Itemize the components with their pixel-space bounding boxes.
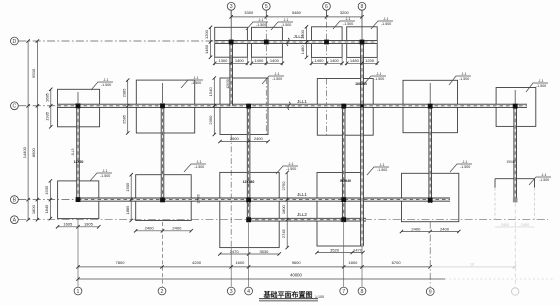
beam JLL2 A axis xyxy=(249,218,366,221)
svg-text:2585: 2585 xyxy=(121,114,126,124)
column node 9-B xyxy=(428,198,433,203)
svg-text:2600: 2600 xyxy=(230,136,240,141)
svg-text:-1.500: -1.500 xyxy=(191,81,201,85)
svg-text:2: 2 xyxy=(161,289,164,295)
svg-text:1200: 1200 xyxy=(365,58,375,63)
svg-text:-1.500: -1.500 xyxy=(374,77,384,81)
svg-text:-1.500: -1.500 xyxy=(256,23,266,27)
break mark JLL1 C xyxy=(288,102,290,110)
svg-text:40000: 40000 xyxy=(290,272,302,277)
column line pad C5 xyxy=(429,83,431,104)
label JLL2 A beam xyxy=(297,212,307,217)
svg-text:8: 8 xyxy=(361,4,364,10)
svg-text:-1.500: -1.500 xyxy=(536,84,546,88)
beam vertical axis4 xyxy=(247,106,250,223)
title text 基础平面布置图 xyxy=(259,290,324,301)
svg-text:J-1: J-1 xyxy=(539,79,544,83)
extension axis10 bottom faint xyxy=(514,203,516,287)
beam vertical axis3 xyxy=(230,42,233,106)
column line pad T1 xyxy=(230,10,232,42)
svg-text:6: 6 xyxy=(325,4,328,10)
top dimension chain 3300 5480 3200 xyxy=(230,10,364,18)
svg-text:1800: 1800 xyxy=(348,260,358,265)
svg-text:6700: 6700 xyxy=(392,260,402,265)
dimension pad T3 1400 1400 xyxy=(310,58,344,65)
extension axis2 bottom xyxy=(162,222,164,287)
svg-text:8600: 8600 xyxy=(31,147,36,157)
leader pad P9 xyxy=(276,162,298,174)
pad J-1 top row 2 xyxy=(252,27,283,57)
svg-text:1605: 1605 xyxy=(63,222,73,227)
svg-text:JLL1: JLL1 xyxy=(297,192,307,197)
svg-text:1905: 1905 xyxy=(84,222,94,227)
svg-text:J-1: J-1 xyxy=(197,160,202,164)
column node 4-A xyxy=(246,217,251,222)
svg-text:1935: 1935 xyxy=(45,111,50,121)
svg-text:W2X40: W2X40 xyxy=(340,179,351,183)
label JZL small 4 xyxy=(197,194,201,203)
svg-text:12X30: 12X30 xyxy=(74,160,84,164)
pad J-1 C row 6 xyxy=(496,88,536,127)
pad J-1 C row 2 xyxy=(136,80,194,133)
svg-text:1300: 1300 xyxy=(218,58,228,63)
label JZL small 2 xyxy=(355,82,367,86)
dimension pad P9 bottom 2470 3530 xyxy=(218,249,281,256)
svg-text:1480: 1480 xyxy=(300,45,305,55)
beam JLL2 top xyxy=(215,40,377,43)
svg-text:1400: 1400 xyxy=(315,58,325,63)
axis circle A xyxy=(11,216,19,224)
svg-text:1540: 1540 xyxy=(208,87,213,97)
leader pad T2 xyxy=(271,18,293,30)
svg-text:9: 9 xyxy=(429,289,432,295)
svg-text:-1.500: -1.500 xyxy=(539,178,549,182)
svg-text:1200: 1200 xyxy=(300,29,305,39)
svg-text:2400: 2400 xyxy=(440,226,450,231)
svg-text:JLL1: JLL1 xyxy=(297,99,307,104)
leader beam C4 junction xyxy=(364,72,386,84)
leader pad P10 xyxy=(367,163,389,175)
beam vertical axis8 xyxy=(361,42,364,246)
axis circle 3 bottom xyxy=(227,287,235,295)
svg-text:J-1: J-1 xyxy=(542,173,547,177)
svg-text:1470: 1470 xyxy=(353,247,363,252)
svg-text:14400: 14400 xyxy=(22,146,27,158)
extension axis9 bottom xyxy=(429,222,431,287)
leader pad P11 xyxy=(450,160,472,172)
column line pad C1 xyxy=(77,92,79,103)
dimension pad P11 bottom 2400 2400 xyxy=(400,226,461,233)
pad J-1 C row 4 xyxy=(317,79,373,136)
beam vertical axis10 xyxy=(514,106,517,198)
pad J-1 bottom row 4 xyxy=(317,173,363,247)
bottom chain faint right xyxy=(430,263,516,269)
svg-text:2750: 2750 xyxy=(281,181,286,191)
svg-text:JLL2: JLL2 xyxy=(297,212,307,217)
axis circle 6 top xyxy=(323,2,331,17)
leader pad P12 xyxy=(529,173,551,185)
axis circle 2 bottom xyxy=(158,287,166,295)
column node 2-C xyxy=(160,103,165,108)
axis 6 dashed line xyxy=(326,10,328,135)
svg-text:1800: 1800 xyxy=(281,204,286,214)
dimension pad C2 left 2385 2585 xyxy=(121,78,129,134)
junction node 8-C xyxy=(360,104,363,107)
svg-text:12X30: 12X30 xyxy=(226,79,230,88)
dimension pad P12 bottom faint 2400 2400 xyxy=(495,223,535,227)
pad J-1 bottom row 2 xyxy=(136,175,192,221)
axis circle C xyxy=(11,102,19,110)
dimension pad T1 1300 1400 xyxy=(213,58,249,65)
leader pad T3 xyxy=(333,17,355,29)
column node 7-A xyxy=(341,217,346,222)
extension axis8 bottom xyxy=(361,246,363,287)
svg-text:J-1: J-1 xyxy=(380,163,385,167)
column node 6-D xyxy=(324,40,329,45)
dimension pad T3 left 1200 1480 xyxy=(300,25,308,59)
dimension pad P9 right 2750 1800 2745 xyxy=(281,171,289,250)
leader pad C3 xyxy=(262,72,284,84)
axis circle 7 bottom xyxy=(340,287,348,295)
left outer dimension 14400 xyxy=(22,39,30,221)
break mark JLL2 top xyxy=(287,38,289,46)
axis circle 10 bottom faint xyxy=(512,288,519,295)
pad J-1 bottom row 1 xyxy=(58,181,99,219)
axis circle 5 top xyxy=(262,2,270,17)
extension axis1 bottom xyxy=(77,219,79,287)
svg-text:B: B xyxy=(13,197,17,203)
label JZL small 7 xyxy=(506,160,515,164)
svg-text:2400: 2400 xyxy=(501,223,509,227)
axis circle D xyxy=(11,37,19,45)
axis circle 9 bottom xyxy=(426,288,434,296)
label JLL2 top beam xyxy=(294,34,304,39)
column node 1-C xyxy=(76,103,81,108)
svg-text:-1.500: -1.500 xyxy=(381,22,391,26)
column node 7-C xyxy=(341,104,346,109)
dimension pad C3 bottom 2600 2400 xyxy=(218,136,269,143)
svg-text:1400: 1400 xyxy=(270,58,280,63)
axis circle 8 bottom xyxy=(358,287,366,295)
svg-text:1935: 1935 xyxy=(44,185,49,195)
svg-text:-1.500: -1.500 xyxy=(377,168,387,172)
svg-text:J-1: J-1 xyxy=(289,162,294,166)
extension axis4 bottom xyxy=(248,223,250,287)
leader pad P7 xyxy=(90,169,112,181)
column node 10-C xyxy=(513,104,518,109)
dimension pad P8 bottom 2400 2400 xyxy=(134,226,193,233)
svg-text:12X30: 12X30 xyxy=(197,194,201,203)
svg-text:8: 8 xyxy=(361,289,364,295)
pad J-1 bottom row 3 xyxy=(220,172,279,247)
column node 1-B xyxy=(76,197,81,202)
column node 2-B xyxy=(160,198,165,203)
extension axis7 bottom xyxy=(343,221,345,287)
dimension pad T1 left 1200 1480 xyxy=(204,26,212,59)
svg-text:1200: 1200 xyxy=(204,29,209,39)
beam vertical axis2 xyxy=(161,106,164,200)
svg-text:3: 3 xyxy=(230,4,233,10)
svg-text:2400: 2400 xyxy=(172,226,182,231)
svg-text:J-1: J-1 xyxy=(462,72,467,76)
svg-text:1885: 1885 xyxy=(125,205,130,215)
label JZL small 6 xyxy=(340,179,351,183)
pad J-1 C row 5 xyxy=(403,80,458,132)
axis B stub line xyxy=(18,199,78,201)
svg-text:1480: 1480 xyxy=(350,58,360,63)
svg-text:1480: 1480 xyxy=(204,44,209,54)
svg-text:JLL3: JLL3 xyxy=(71,148,75,155)
label JLL1 B beam xyxy=(297,192,307,197)
axis 3 dashed line mid xyxy=(230,135,232,248)
svg-text:5480: 5480 xyxy=(292,10,302,15)
svg-text:3: 3 xyxy=(230,289,233,295)
svg-text:1845: 1845 xyxy=(44,204,49,214)
svg-text:4: 4 xyxy=(247,289,250,295)
svg-text:2400: 2400 xyxy=(411,226,421,231)
svg-text:2745: 2745 xyxy=(281,228,286,238)
dimension pad T4 1480 1200 xyxy=(345,58,379,65)
pad J-1 top row 4 xyxy=(347,27,378,58)
svg-text:-1.500: -1.500 xyxy=(101,83,111,87)
svg-text:J-1: J-1 xyxy=(377,72,382,76)
column node 5-D xyxy=(264,40,269,45)
svg-text:A: A xyxy=(13,218,17,224)
beam vertical axis7 xyxy=(342,106,345,220)
svg-text:3530: 3530 xyxy=(259,249,269,254)
axis circle 1 bottom xyxy=(74,287,82,295)
axis C stub line xyxy=(18,105,57,107)
svg-text:12X480: 12X480 xyxy=(243,180,255,184)
svg-text:1: 1 xyxy=(77,289,80,295)
svg-text:6500: 6500 xyxy=(31,68,36,78)
svg-text:1400: 1400 xyxy=(235,58,245,63)
column node 10-B grey xyxy=(513,198,518,203)
svg-text:-1.500: -1.500 xyxy=(343,22,353,26)
beam vertical axis9 xyxy=(429,106,432,203)
svg-text:1685: 1685 xyxy=(45,92,50,102)
svg-text:J-1: J-1 xyxy=(463,160,468,164)
svg-text:基础平面布置图: 基础平面布置图 xyxy=(263,290,313,299)
dimension pad P7 bottom 1605 1905 xyxy=(56,222,101,229)
svg-text:-1.500: -1.500 xyxy=(272,77,282,81)
beam JLL1 C axis xyxy=(58,104,528,107)
svg-text:D: D xyxy=(13,39,17,45)
svg-text:-1.500: -1.500 xyxy=(100,174,110,178)
label JZL small 5 xyxy=(243,180,255,184)
leader pad C6 xyxy=(526,79,548,92)
svg-text:J-1: J-1 xyxy=(103,169,108,173)
svg-text:-1.500: -1.500 xyxy=(194,165,204,169)
leader pad C1 xyxy=(91,78,113,90)
svg-text:2350: 2350 xyxy=(208,115,213,125)
svg-text:7: 7 xyxy=(342,289,345,295)
svg-text:1400: 1400 xyxy=(254,58,264,63)
column node 8-D xyxy=(360,40,365,45)
svg-text:3520: 3520 xyxy=(330,247,340,252)
axis circle 4 bottom xyxy=(245,287,253,295)
svg-text:2385: 2385 xyxy=(121,88,126,98)
pad J-1 top row 3 xyxy=(312,27,343,58)
svg-text:2400: 2400 xyxy=(145,226,155,231)
leader pad C5 xyxy=(449,72,471,85)
axis circle B xyxy=(11,196,19,204)
svg-text:J-1: J-1 xyxy=(259,18,264,22)
svg-text:-1.500: -1.500 xyxy=(459,77,469,81)
dimension pad C1 left 1685 1935 xyxy=(45,88,53,129)
column node 3-D xyxy=(229,40,234,45)
svg-text:2400: 2400 xyxy=(521,223,529,227)
pad J-1 bottom row 6 partial xyxy=(495,179,535,220)
svg-text:J-1: J-1 xyxy=(104,78,109,82)
column node 4-C xyxy=(246,104,251,109)
bottom dimension chain 7800 4200 1600 9600 1800 6700 xyxy=(76,260,432,269)
leader pad T4 xyxy=(371,17,393,29)
axis D dash-dot line xyxy=(18,40,214,42)
leader pad T1 xyxy=(246,18,268,30)
pad J-1 bottom row 5 xyxy=(402,173,459,221)
svg-text:J-1: J-1 xyxy=(384,17,389,21)
dimension pad T2 1400 1400 xyxy=(250,58,284,65)
svg-text:1800: 1800 xyxy=(31,204,36,214)
svg-text:1400: 1400 xyxy=(330,58,340,63)
svg-text:7800: 7800 xyxy=(116,260,126,265)
pad J-1 C row 3 xyxy=(220,78,268,135)
svg-text:19X40: 19X40 xyxy=(506,160,515,164)
svg-text:C: C xyxy=(13,104,17,110)
svg-text:-1.500: -1.500 xyxy=(281,23,291,27)
svg-text:J-1: J-1 xyxy=(346,17,351,21)
column node 9-C xyxy=(428,104,433,109)
svg-text:3200: 3200 xyxy=(340,10,350,15)
label JZL small 1 xyxy=(226,79,230,88)
svg-text:4200: 4200 xyxy=(192,260,202,265)
axis 5 dashed line xyxy=(265,10,267,135)
svg-text:5: 5 xyxy=(265,4,268,10)
svg-text:J-1: J-1 xyxy=(275,72,280,76)
svg-text:1600: 1600 xyxy=(235,260,245,265)
dimension pad P7 left 1935 1845 xyxy=(44,179,52,220)
column line pad T4 xyxy=(361,10,363,42)
label JZL small 3 xyxy=(71,148,84,164)
svg-text:9600: 9600 xyxy=(292,260,302,265)
bottom total dimension 40000 xyxy=(76,272,553,280)
svg-text:-1.500: -1.500 xyxy=(460,165,470,169)
left inner dimension 6500 8600 1800 xyxy=(31,39,39,221)
column node 4-B xyxy=(246,198,251,203)
dimension pad P8 left 1905 1885 xyxy=(125,173,133,222)
column line pad C2 xyxy=(162,83,164,103)
svg-text:2400: 2400 xyxy=(254,136,264,141)
beam JLL1 B axis xyxy=(78,198,450,201)
axis A dash-dot line xyxy=(18,219,548,221)
svg-text:J-1: J-1 xyxy=(284,18,289,22)
pad J-1 C row 1 xyxy=(58,89,100,127)
pad J-1 top row 1 xyxy=(215,27,248,57)
svg-text:1905: 1905 xyxy=(125,182,130,192)
svg-text:3300: 3300 xyxy=(244,10,254,15)
label JLL1 C beam xyxy=(297,99,307,104)
column line pad C6 xyxy=(514,90,516,104)
svg-text:J-1: J-1 xyxy=(194,76,199,80)
extension axis3 bottom xyxy=(230,248,232,287)
extension lines below top pads xyxy=(215,57,378,65)
dimension pad P10 bottom 3520 1470 xyxy=(315,247,364,254)
svg-text:-1.500: -1.500 xyxy=(286,167,296,171)
svg-text:10: 10 xyxy=(470,263,474,267)
dimension pad C3 left 1540 2350 xyxy=(208,76,216,136)
column node 7-B xyxy=(341,197,346,202)
leader pad P8 xyxy=(184,160,206,172)
axis circle 3 top xyxy=(227,2,235,17)
leader pad C2 xyxy=(181,76,203,88)
beam vertical axis1 xyxy=(77,106,80,200)
axis circle 8 top xyxy=(358,2,366,17)
